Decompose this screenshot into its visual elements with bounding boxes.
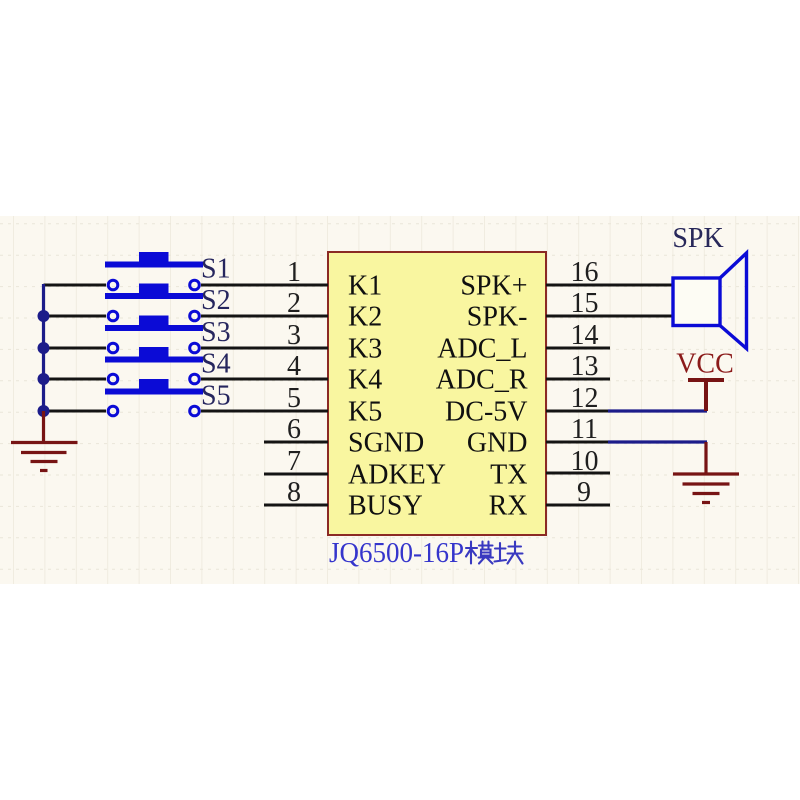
pushbutton S1: [105, 252, 203, 268]
pin names right column: [436, 271, 528, 522]
ground bus vertical wire: [42, 284, 45, 411]
pushbutton S2: [105, 284, 203, 300]
wire pin10 stub: [546, 472, 610, 475]
wire pin16 to speaker: [546, 284, 673, 287]
wire pin2 to S2: [201, 315, 328, 318]
svg-text:13: 13: [571, 351, 599, 382]
svg-text:SGND: SGND: [348, 428, 424, 459]
pin numbers left: [287, 257, 301, 508]
ground symbol left (maroon): [11, 411, 78, 471]
wire pin11 net to GND (blue): [608, 440, 707, 443]
wire pin9 stub: [546, 504, 610, 507]
svg-text:6: 6: [287, 414, 301, 445]
pin names left column: [348, 271, 446, 522]
wire pin6 stub: [264, 441, 328, 444]
svg-text:5: 5: [287, 383, 301, 414]
wire pin7 stub: [264, 473, 328, 476]
svg-text:VCC: VCC: [676, 349, 734, 380]
wire pin13 stub: [546, 378, 610, 381]
svg-text:1: 1: [287, 257, 301, 288]
svg-text:SPK+: SPK+: [460, 271, 527, 302]
svg-text:ADC_L: ADC_L: [437, 334, 527, 365]
svg-text:16: 16: [571, 257, 599, 288]
wire S3 left to bus: [44, 347, 107, 350]
pushbutton S4: [105, 347, 203, 363]
svg-text:K2: K2: [348, 302, 382, 333]
wire pin15 to speaker: [546, 315, 673, 318]
junction dot S2: [38, 310, 50, 322]
wire pin3 to S3: [201, 347, 328, 350]
svg-text:SPK-: SPK-: [467, 302, 528, 333]
svg-text:K3: K3: [348, 334, 382, 365]
junction dot S3: [38, 342, 50, 354]
wire pin5 to S5: [201, 410, 328, 413]
wire pin8 stub: [264, 504, 328, 507]
svg-text:11: 11: [571, 414, 598, 445]
schematic cream background band: [0, 216, 800, 584]
wire pin12 stub: [546, 410, 608, 413]
svg-text:2: 2: [287, 288, 301, 319]
svg-text:10: 10: [571, 446, 599, 477]
svg-text:JQ6500-16P: JQ6500-16P: [329, 538, 464, 569]
svg-text:TX: TX: [490, 460, 527, 491]
junction dot S4: [38, 373, 50, 385]
wire pin14 stub: [546, 347, 610, 350]
wires: left pin stubs 1-8: [44, 285, 674, 505]
svg-text:K5: K5: [348, 397, 382, 428]
svg-text:SPK: SPK: [672, 223, 723, 254]
wire pin12 net to VCC (blue): [608, 409, 707, 412]
svg-text:S5: S5: [201, 381, 231, 412]
wire pin1 to S1: [201, 284, 328, 287]
svg-text:ADC_R: ADC_R: [436, 365, 528, 396]
wire S4 left to bus: [44, 378, 107, 381]
wire pin11 stub: [546, 441, 608, 444]
pushbutton S3: [105, 316, 203, 332]
ground symbol right (maroon): [673, 442, 739, 503]
svg-text:K4: K4: [348, 365, 382, 396]
svg-text:S3: S3: [201, 317, 231, 348]
junction dot S5: [38, 405, 50, 417]
svg-text:8: 8: [287, 477, 301, 508]
svg-text:S2: S2: [201, 285, 231, 316]
svg-text:ADKEY: ADKEY: [348, 460, 446, 491]
svg-text:4: 4: [287, 351, 301, 382]
CJK glyph 模 (drawn): [466, 542, 493, 564]
wire S5 left to bus: [44, 410, 107, 413]
svg-text:3: 3: [287, 320, 301, 351]
svg-text:15: 15: [571, 288, 599, 319]
pin numbers right: [571, 257, 599, 508]
IC U1 JQ6500-16P body: [328, 252, 546, 535]
svg-text:GND: GND: [467, 428, 528, 459]
svg-text:S1: S1: [201, 254, 231, 285]
wire S2 left to bus: [44, 315, 107, 318]
svg-text:9: 9: [577, 477, 591, 508]
svg-text:S4: S4: [201, 349, 231, 380]
svg-text:14: 14: [571, 320, 599, 351]
CJK glyph 块 (drawn): [495, 542, 523, 564]
svg-text:7: 7: [287, 446, 301, 477]
svg-text:RX: RX: [489, 491, 528, 522]
pushbutton S5: [105, 379, 203, 395]
wire S1 left to bus: [44, 284, 107, 287]
svg-text:BUSY: BUSY: [348, 491, 423, 522]
svg-text:12: 12: [571, 383, 599, 414]
svg-text:K1: K1: [348, 271, 382, 302]
wire pin4 to S4: [201, 378, 328, 381]
speaker LS1 symbol: [673, 253, 747, 349]
svg-text:DC-5V: DC-5V: [445, 397, 527, 428]
